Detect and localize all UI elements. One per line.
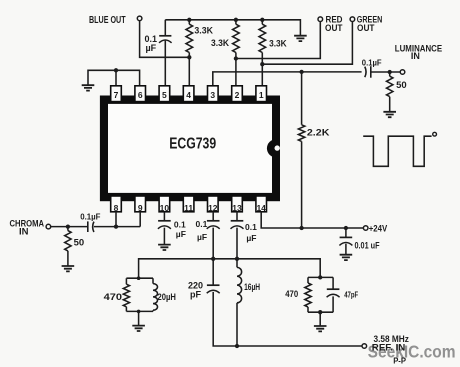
svg-text:50: 50 (396, 80, 407, 91)
resistor R5 2.2K (301, 72, 303, 228)
svg-text:14: 14 (256, 203, 266, 213)
U1 pin 12 (208, 196, 219, 212)
svg-text:+24V: +24V (369, 223, 388, 234)
terminal GREEN OUT (350, 17, 355, 22)
svg-text:7: 7 (114, 90, 119, 100)
terminal CHROMA IN (46, 224, 51, 229)
ground G4 under chroma 50 (62, 266, 75, 271)
wire cap to pins 8,9 (94, 212, 140, 227)
wire BLUE OUT to pin 4 node (140, 21, 190, 58)
svg-text:2: 2 (235, 90, 240, 100)
capacitor C6 220pF (207, 284, 220, 286)
svg-text:µF: µF (197, 232, 207, 242)
svg-text:OUT: OUT (325, 23, 343, 34)
U1 pin 8 (111, 196, 122, 212)
U1 pin 4 (183, 86, 194, 102)
svg-text:µF: µF (146, 43, 157, 53)
terminal LUMINANCE IN (400, 70, 405, 75)
U1 pin 7 (111, 86, 122, 102)
svg-text:16µH: 16µH (244, 282, 260, 292)
ground G2 left + wire to pins 7,6 (88, 70, 140, 86)
capacitor C9 0.01uF (345, 228, 347, 254)
svg-text:REF. IN: REF. IN (372, 342, 406, 352)
svg-text:13: 13 (232, 203, 242, 213)
svg-text:470: 470 (285, 289, 298, 299)
ground G1 top right (294, 36, 307, 41)
ground G8 under C9 (340, 255, 353, 260)
svg-text:BLUE OUT: BLUE OUT (89, 15, 126, 26)
terminal RED OUT (318, 17, 323, 22)
wire chroma to cap (51, 226, 88, 228)
svg-text:6: 6 (138, 90, 143, 100)
svg-text:3.3K: 3.3K (269, 39, 287, 49)
capacitor C4 0.1uF pin10 (163, 212, 165, 244)
resistor R4 50 (389, 72, 391, 111)
svg-text:IN: IN (411, 51, 420, 61)
capacitor C3 0.1uF chroma (87, 221, 89, 232)
U1 pin 2 (232, 86, 243, 102)
U1 index notch (267, 139, 276, 157)
svg-text:3.3K: 3.3K (194, 25, 213, 35)
resistor R2 3.3K (235, 20, 237, 86)
capacitor C7 0.1uF pin13 (236, 212, 238, 268)
svg-text:9: 9 (138, 203, 143, 213)
ground G6 under left tank (132, 326, 145, 331)
capacitor C2 0.1uF luminance (365, 67, 366, 78)
svg-text:µF: µF (176, 229, 186, 239)
svg-text:1: 1 (259, 90, 264, 100)
svg-text:470: 470 (104, 292, 122, 302)
svg-text:P-P: P-P (393, 356, 406, 366)
ground G3 under 50 (383, 112, 396, 117)
op-amp U1 ECG739 body (100, 96, 280, 202)
svg-text:0.01 uF: 0.01 uF (355, 241, 380, 251)
terminal 3.58MHz REF IN (362, 344, 367, 349)
svg-text:0.1: 0.1 (245, 222, 257, 232)
capacitor C1 0.1uF pin5 (164, 20, 166, 86)
resistor R6 50 (67, 227, 69, 266)
tank right: resistor R8 470 and capacitor C8 47pF (308, 277, 333, 325)
wire pin14 to +24V (261, 212, 363, 228)
svg-text:pF: pF (190, 290, 201, 300)
svg-text:0.1: 0.1 (196, 219, 208, 229)
svg-text:10: 10 (160, 203, 170, 213)
svg-text:11: 11 (184, 203, 193, 213)
svg-text:20µH: 20µH (158, 292, 176, 302)
U1 pin 1 (256, 86, 267, 102)
U1 pin 11 (183, 196, 194, 212)
svg-text:µF: µF (246, 233, 256, 243)
U1 pin 14 (256, 196, 267, 212)
svg-text:IN: IN (19, 226, 29, 237)
svg-text:5: 5 (162, 90, 167, 100)
U1 pin 9 (135, 196, 146, 212)
resistor R3 3.3K (261, 20, 263, 86)
svg-text:12: 12 (208, 203, 218, 213)
resistor R1 3.3K (188, 20, 190, 86)
U1 pin 5 (159, 86, 170, 102)
svg-text:ECG739: ECG739 (169, 136, 216, 153)
svg-text:4: 4 (186, 90, 191, 100)
svg-text:0.1µF: 0.1µF (362, 59, 382, 68)
svg-text:47pF: 47pF (344, 291, 358, 300)
wire mid rail (139, 259, 321, 278)
svg-text:OUT: OUT (357, 23, 375, 34)
svg-text:3.3K: 3.3K (211, 38, 229, 48)
U1 pin 13 (232, 196, 243, 212)
U1 pin 10 (159, 196, 170, 212)
svg-text:8: 8 (114, 203, 119, 213)
ground G5 under C4 (158, 245, 171, 250)
waveform luminance (363, 136, 431, 166)
svg-text:2.2K: 2.2K (307, 128, 330, 139)
svg-text:3: 3 (210, 90, 215, 100)
wire pin1 to GREEN OUT (262, 21, 352, 64)
tank left: resistor R7 470 and inductor L2 20uH (126, 278, 153, 325)
wire pin3 to luminance coupling (213, 72, 362, 86)
wire top ground rail (165, 20, 300, 35)
U1 pin 6 (135, 86, 146, 102)
inductor L1 16uH (237, 267, 242, 302)
capacitor C5 0.1uF pin12 (212, 212, 214, 285)
U1 pin 3 (208, 86, 219, 102)
terminal +24V (363, 226, 368, 231)
svg-text:50: 50 (74, 237, 85, 248)
svg-text:0.1µF: 0.1µF (80, 213, 100, 222)
ground G7 under right tank (314, 326, 327, 331)
wire pin2 to RED OUT (236, 21, 320, 58)
terminal BLUE OUT (137, 16, 142, 21)
